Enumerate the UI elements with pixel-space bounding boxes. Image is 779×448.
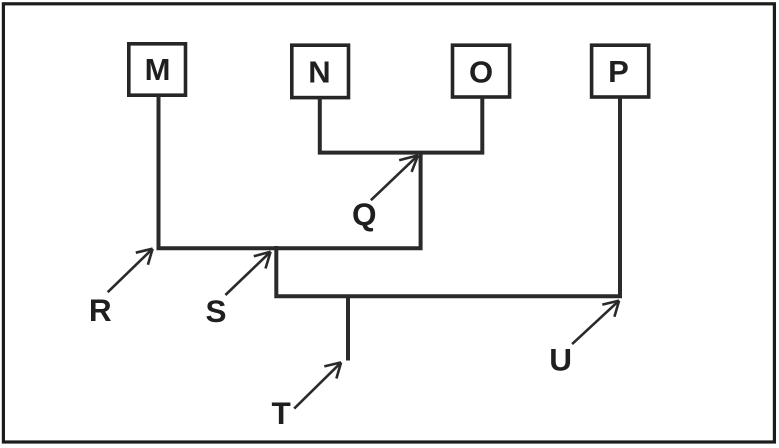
arrow to node S [225,252,270,295]
svg-text:N: N [308,55,330,90]
wire: M stem, R-level crossbar, Q stem [159,96,421,248]
arrow to node U [572,301,619,345]
wire: N stem, N-O crossbar, O stem [320,97,483,153]
arrow to node T [294,362,341,408]
svg-text:S: S [205,293,226,329]
box M [129,44,186,95]
svg-text:T: T [271,395,290,431]
wire: S stem, S-level crossbar, P stem [276,97,620,296]
svg-text:P: P [608,54,629,89]
svg-text:R: R [89,292,112,328]
svg-text:O: O [469,55,493,90]
svg-text:U: U [549,341,572,377]
svg-text:Q: Q [352,196,377,232]
arrow to node R [108,249,153,293]
svg-text:M: M [145,52,171,87]
box N [292,45,349,97]
box O [453,45,510,97]
box P [592,45,649,97]
arrow to node Q [371,155,418,200]
wire: T stem (root) [346,295,350,361]
